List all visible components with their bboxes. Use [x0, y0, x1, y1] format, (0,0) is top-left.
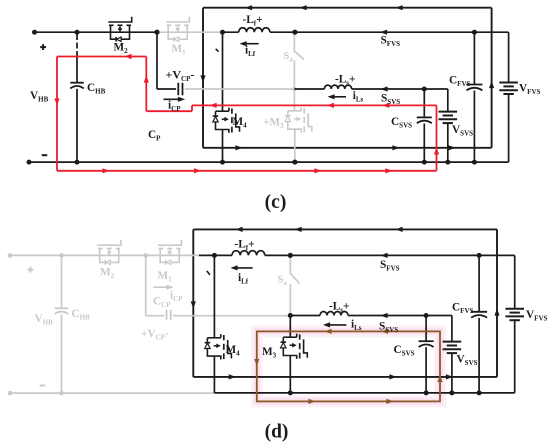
- wire: (c) M4 drain branch: [222, 32, 224, 111]
- wire: (c) C_HB branch dashed part: [76, 34, 78, 57]
- arrow i_Ls (c): [332, 96, 346, 98]
- wire: (d) V_FVS to bottom rail: [514, 320, 516, 393]
- node: (c) left terminal: [32, 30, 37, 35]
- svg-text:M1: M1: [158, 270, 173, 284]
- node: (d) Lf right: [288, 253, 293, 258]
- wire: (d) loop left vertical: [192, 229, 194, 377]
- switch S_a (d, open, inactive): [289, 255, 291, 272]
- node: (d) M4 drain node: [212, 253, 217, 258]
- svg-text:+M3: +M3: [263, 117, 284, 131]
- wire: red loop right vertical: [436, 105, 438, 170]
- node: (d) C_SVS top: [424, 313, 429, 318]
- arrow on (d) S_SVS wire: [380, 313, 387, 318]
- wire: (c) loop left vertical: [202, 8, 204, 148]
- wire: (d) gray main rail: [10, 254, 199, 256]
- node: (c) V_SVS bottom: [445, 160, 450, 165]
- wire: (c) rail Lf to S_FVS branch: [270, 31, 509, 33]
- wire: (c) C_HB to bottom rail: [76, 89, 78, 162]
- svg-text:CHB: CHB: [87, 82, 106, 96]
- battery V_FVS (d): [505, 308, 524, 310]
- svg-text:M2: M2: [100, 267, 115, 281]
- wire: (d) top loop rail: [193, 228, 497, 230]
- node: (d) C_HB bottom gray: [59, 391, 64, 396]
- arrow i_CP (c): [164, 98, 181, 100]
- node: (c) C_HB top: [75, 30, 80, 35]
- wire: (c) C_P branch vertical: [156, 32, 158, 89]
- transistor M4 (d): [207, 337, 220, 339]
- svg-text:SSVS: SSVS: [379, 321, 398, 335]
- node: (c) C_FVS top: [472, 30, 477, 35]
- wire: (d) C_SVS to bottom rail: [425, 347, 427, 393]
- node: (d) V_SVS bottom: [449, 390, 454, 395]
- wire: (c) V_FVS to bottom rail: [508, 94, 510, 162]
- arrow i_Lf (c): [245, 43, 259, 45]
- wire: brown current loop (d): [257, 331, 440, 401]
- inductor Ls (c): [324, 85, 351, 89]
- wire: (d) loop bottom horizontal: [193, 376, 497, 378]
- node: (c) Lf right: [292, 30, 297, 35]
- wire: (c) M4 source to bottom rail: [222, 130, 224, 163]
- wire: (d) C_HB to bottom gray: [61, 314, 63, 393]
- capacitor C_CP (d, inactive): [166, 310, 168, 320]
- node: (c) C_SVS top: [422, 87, 427, 92]
- arrow on (c) S_SVS wire: [380, 86, 387, 91]
- node: (d) left terminal gray: [8, 253, 13, 258]
- svg-text:iLs: iLs: [351, 319, 362, 333]
- svg-text:SFVS: SFVS: [380, 259, 400, 273]
- svg-text:SSVS: SSVS: [381, 93, 400, 107]
- switch S_a (c, open, inactive): [293, 32, 295, 50]
- wire: (c) Ls branch left: [294, 88, 324, 90]
- node: (c) C_FVS bottom: [472, 160, 477, 165]
- wire: (d) V_FVS branch down: [514, 255, 516, 308]
- svg-text:M3: M3: [262, 346, 277, 360]
- battery V_SVS (d): [443, 341, 462, 343]
- node: (c) bottom left terminal: [27, 160, 32, 165]
- arrow on (c) S_FVS rail: [380, 30, 387, 35]
- svg-text:+VCP-: +VCP-: [141, 328, 169, 342]
- battery V_SVS (c): [439, 111, 458, 113]
- svg-text:M4: M4: [233, 116, 248, 130]
- svg-text:iLs: iLs: [353, 90, 364, 104]
- node A (c): Lf input: [220, 30, 225, 35]
- transistor M2 (c): [108, 17, 131, 22]
- wire: (c) C_SVS to bottom rail: [423, 123, 425, 162]
- transistor M3 (c, inactive): [288, 110, 301, 112]
- node: (c) M2-M1 junction: [155, 30, 160, 35]
- node: (d) C_HB top gray: [59, 253, 64, 258]
- wire: (c) gray rail segment through M1: [157, 31, 223, 33]
- wire: (c) C_FVS to bottom rail: [473, 91, 475, 163]
- wire: (d) C_FVS branch: [478, 255, 480, 311]
- wire: (c) Ls to V_SVS: [352, 88, 448, 90]
- label + (d): [28, 269, 34, 271]
- wire: (c) V_FVS branch down: [508, 32, 510, 82]
- node: (c) M3 bottom: [292, 160, 297, 165]
- wire: (c) loop bottom horizontal: [203, 147, 492, 149]
- wire: (c) C_HB branch solid: [76, 57, 78, 83]
- node dots redrawn over gray (d): [288, 253, 293, 258]
- wire: (d) C_CP branch gray vertical: [145, 255, 147, 315]
- wire: (d) loop right vertical: [496, 229, 498, 377]
- wire: (d) Ls to V_SVS: [348, 315, 452, 317]
- wire: (c) M3 source gray to bottom rail: [294, 129, 296, 162]
- wire: (c) M3 drain gray: [293, 89, 295, 111]
- capacitor C_HB (c): [70, 82, 84, 84]
- transistor M1 (d, inactive): [158, 240, 181, 245]
- svg-text:(c): (c): [265, 192, 287, 213]
- svg-text:-Lf+: -Lf+: [235, 238, 255, 252]
- capacitor C_FVS (c): [466, 84, 482, 86]
- label - (c): [42, 154, 48, 156]
- transistor M2 (d, inactive): [98, 240, 121, 245]
- wire: (c) loop right vertical: [491, 8, 493, 148]
- wire: (d) C_CP to S_a bottom gray: [173, 315, 290, 317]
- capacitor C_FVS (d): [471, 311, 487, 313]
- battery V_FVS (c): [499, 82, 518, 84]
- wire: (d) rail Lf to V_FVS: [265, 254, 515, 256]
- wire: (d) V_SVS to bottom rail: [451, 353, 453, 393]
- svg-text:VHB: VHB: [30, 90, 49, 104]
- arrow i_CP (d): [153, 286, 168, 288]
- node: (c) M4 bottom: [220, 160, 225, 165]
- svg-text:iCP: iCP: [170, 290, 183, 304]
- wire: red loop bottom horizontal: [57, 170, 437, 172]
- capacitor C_P (c): [177, 83, 179, 96]
- svg-text:-Lf+: -Lf+: [243, 14, 263, 28]
- svg-text:(d): (d): [265, 422, 289, 443]
- glow behind brown loop: [257, 331, 440, 401]
- svg-text:VFVS: VFVS: [519, 83, 541, 97]
- svg-text:iLf: iLf: [245, 45, 256, 59]
- svg-text:CSVS: CSVS: [394, 344, 415, 358]
- svg-text:+VCP-: +VCP-: [166, 68, 195, 84]
- node: (c) S_a bottom gray: [292, 87, 297, 92]
- node: (c) C_HB bottom: [75, 160, 80, 165]
- svg-text:-Ls+: -Ls+: [329, 301, 349, 315]
- arrows on (c) loop: [245, 5, 252, 10]
- wire: red loop mid horizontal: [192, 104, 437, 106]
- wire: (d) V_SVS branch down: [451, 316, 453, 342]
- wire: red loop inner vertical: [145, 57, 147, 112]
- svg-text:CHB: CHB: [72, 308, 91, 322]
- wire: (d) black bottom rail: [214, 392, 514, 394]
- switch blade tick (d): [207, 271, 210, 275]
- svg-text:CP: CP: [148, 129, 161, 143]
- node dots redrawn over gray (c): [155, 30, 160, 35]
- svg-text:iLf: iLf: [238, 272, 249, 286]
- svg-text:CFVS: CFVS: [452, 302, 474, 316]
- svg-text:Sa: Sa: [278, 275, 288, 288]
- node: (d) S_a bottom: [288, 313, 293, 318]
- wire: red loop left vertical: [56, 57, 58, 171]
- transistor M3 (d): [283, 336, 296, 338]
- wire: (c) C_SVS branch: [423, 89, 425, 117]
- wire: (d) Ls branch left: [290, 315, 320, 317]
- wire: (c) C_FVS branch: [473, 32, 475, 84]
- arrows on (d) loop: [235, 227, 242, 232]
- wire: (c) C_P branch horizontal: [157, 88, 176, 90]
- arrow i_Lf (d): [235, 267, 253, 269]
- label + (c): [40, 46, 46, 48]
- svg-text:SFVS: SFVS: [381, 34, 401, 48]
- capacitor C_HB (d, inactive): [55, 307, 69, 309]
- svg-text:M1: M1: [172, 43, 187, 57]
- svg-text:CCP: CCP: [153, 296, 171, 310]
- svg-text:VSVS: VSVS: [457, 354, 478, 368]
- node: (d) C_FVS top: [477, 253, 482, 258]
- wire: (d) C_HB branch gray: [61, 255, 63, 308]
- node: (d) bottom left terminal gray: [8, 391, 13, 396]
- svg-text:CFVS: CFVS: [449, 75, 471, 89]
- node: (c) C_SVS bottom: [422, 160, 427, 165]
- wire: (c) bottom rail: [29, 161, 509, 163]
- svg-text:CSVS: CSVS: [391, 116, 412, 130]
- svg-text:VSVS: VSVS: [452, 124, 473, 138]
- transistor M4 (c): [216, 110, 229, 112]
- inductor Ls (d): [320, 311, 348, 315]
- label - (d): [40, 385, 46, 387]
- wire: (d) C_SVS branch: [425, 316, 427, 342]
- svg-text:VFVS: VFVS: [526, 309, 548, 323]
- switch blade tick (c): [216, 49, 219, 52]
- wire: (c) main top rail black left part: [35, 31, 158, 33]
- wire: red current loop (c) top segment: [57, 56, 146, 58]
- node: (d) C_SVS bottom: [424, 390, 429, 395]
- wire: (d) C_FVS to bottom rail: [478, 318, 480, 393]
- wire: (d) M4 source to bottom rail: [213, 356, 215, 393]
- svg-text:-Ls+: -Ls+: [335, 74, 355, 88]
- wire: (d) M3 drain: [289, 316, 291, 338]
- arrow i_Ls (d): [328, 324, 347, 326]
- wire: (c) rail from node A to Lf: [223, 31, 239, 33]
- wire: (d) gray bottom rail: [10, 392, 214, 394]
- transistor M1 (c, inactive): [166, 17, 189, 22]
- svg-text:VHB: VHB: [35, 313, 54, 327]
- arrow on (d) S_FVS rail: [380, 253, 387, 258]
- svg-text:Sa: Sa: [284, 51, 294, 64]
- wire: (c) V_SVS branch down: [447, 89, 449, 112]
- wire: (d) M4 drain branch: [213, 255, 215, 337]
- wire: (d) black rail into Lf: [199, 254, 232, 256]
- wire: (d) M3 source to bottom rail: [289, 356, 291, 393]
- node: (d) C_CP branch gray: [143, 253, 148, 258]
- svg-text:M2: M2: [114, 42, 129, 56]
- wire: (c) C_P to S_a bottom (inactive gray): [185, 88, 295, 90]
- inductor Lf (c): [239, 28, 270, 32]
- node: (d) C_FVS bottom: [477, 390, 482, 395]
- capacitor C_SVS (c): [417, 116, 432, 118]
- svg-text:M4: M4: [226, 344, 241, 358]
- wire: (c) top loop rail: [203, 7, 492, 9]
- wire: (d) C_CP branch gray horizontal: [146, 315, 165, 317]
- capacitor C_SVS (d): [419, 340, 434, 342]
- inductor Lf (d): [232, 251, 265, 256]
- wire: red loop step: [191, 105, 193, 111]
- wire: (c) V_SVS to bottom rail: [447, 123, 449, 162]
- node: (d) M3 bottom: [288, 390, 293, 395]
